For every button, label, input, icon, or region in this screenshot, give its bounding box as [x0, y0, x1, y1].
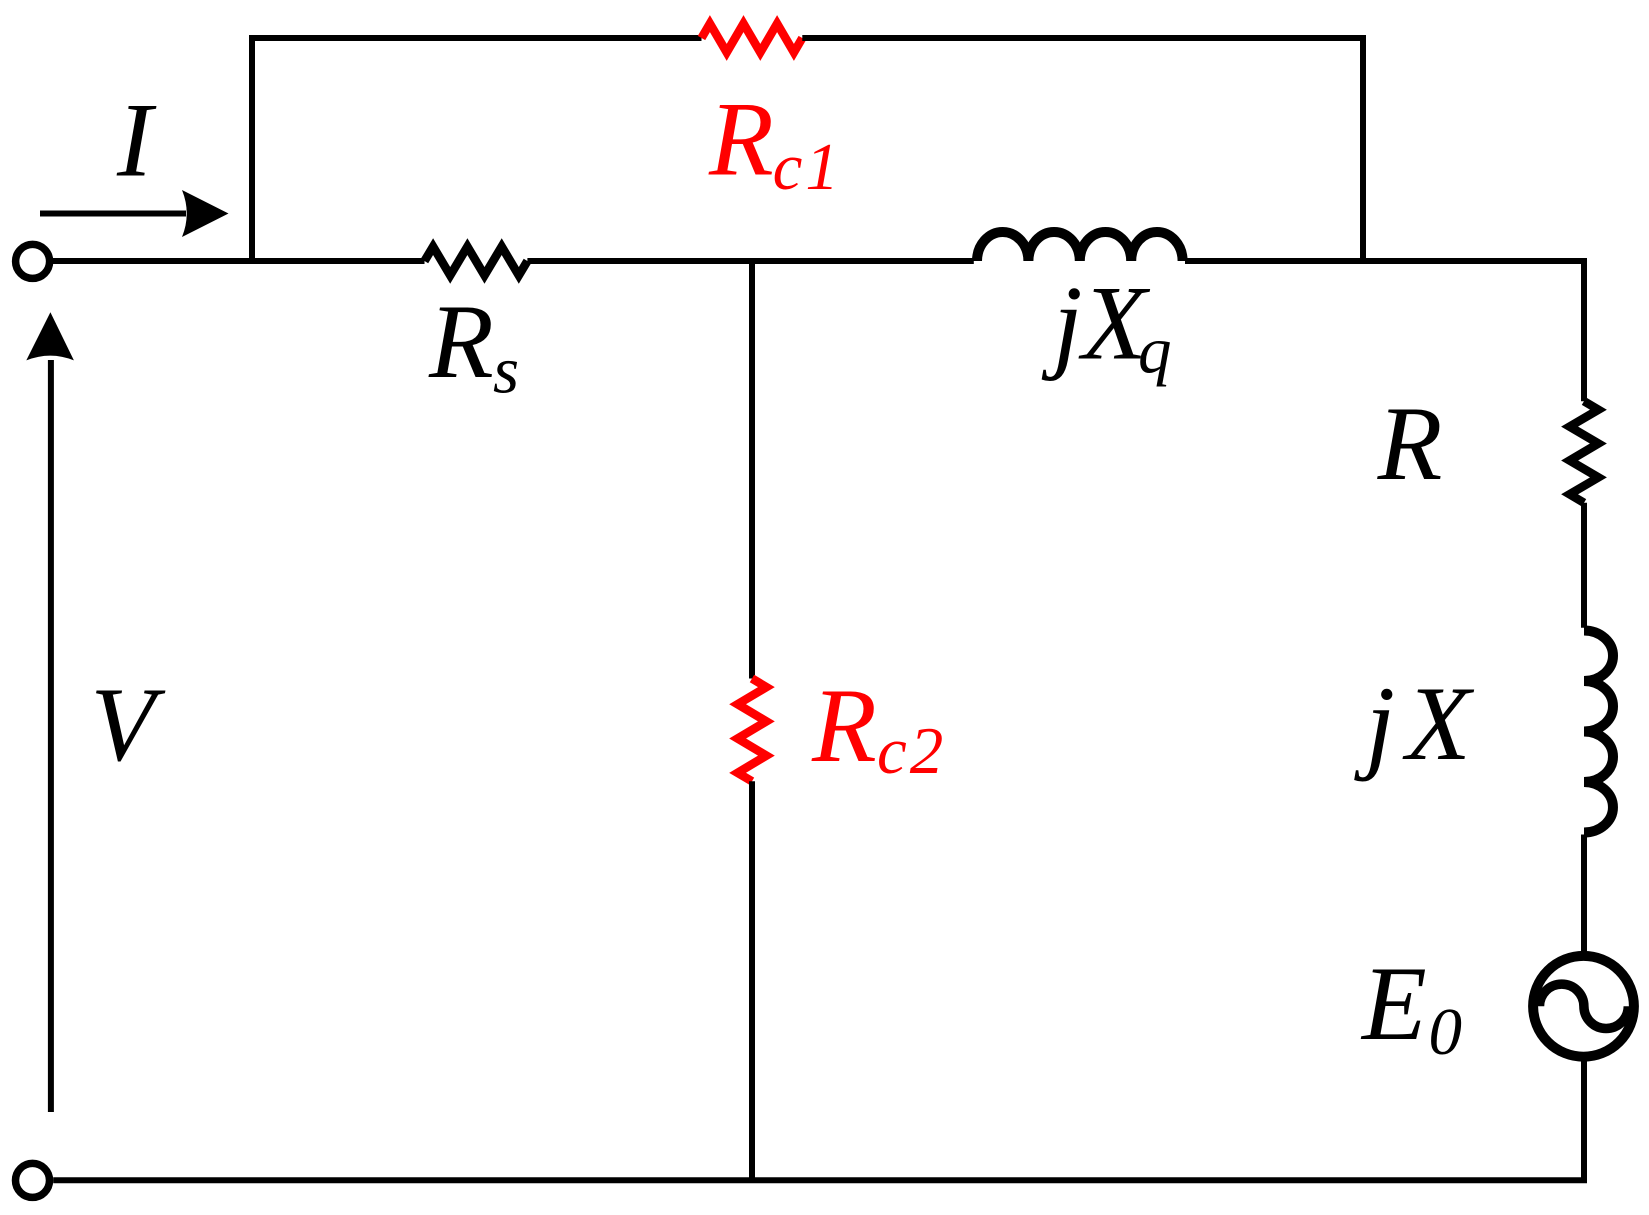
source E0 circle [1533, 956, 1634, 1057]
svg-text:R: R [811, 667, 877, 784]
svg-text:E: E [1360, 945, 1427, 1062]
wire: main horizontal between Rs and jXq [527, 258, 973, 264]
svg-text:q: q [1138, 313, 1172, 387]
svg-text:0: 0 [1429, 995, 1463, 1069]
wire: main horizontal from jXq to right corner, down to R [1185, 261, 1584, 401]
wire: between R and jX [1581, 503, 1587, 628]
svg-text:R: R [708, 81, 774, 198]
source E0 sine [1540, 984, 1629, 1028]
resistor Rc2 [738, 679, 767, 782]
svg-text:R: R [428, 283, 494, 400]
resistor R [1570, 401, 1599, 503]
inductor jX [1584, 631, 1613, 833]
node bottom-left terminal [16, 1163, 50, 1197]
resistor Rs [425, 247, 528, 276]
wire: top loop left vertical and top wire left segment [252, 38, 702, 261]
node top-left terminal [16, 244, 50, 278]
wire: middle branch lower [749, 781, 755, 1180]
svg-text:X: X [1402, 665, 1475, 782]
arrow I [40, 211, 186, 217]
wire: top wire right segment and loop right vertical [802, 38, 1363, 261]
svg-text:c2: c2 [877, 714, 946, 788]
wire: below source to bottom-right corner and bottom wire [53, 1061, 1584, 1181]
wire: main horizontal from terminal to Rs [53, 258, 425, 264]
svg-text:R: R [1377, 385, 1443, 502]
svg-text:c1: c1 [773, 130, 842, 204]
wire: middle branch upper [749, 261, 755, 679]
svg-text:V: V [91, 666, 166, 783]
inductor jXq [977, 232, 1183, 261]
resistor Rc1 [702, 24, 803, 53]
wire: between jX and source E0 [1581, 835, 1587, 953]
arrow V [48, 360, 54, 1112]
svg-text:s: s [493, 334, 519, 408]
svg-text:I: I [116, 82, 157, 199]
